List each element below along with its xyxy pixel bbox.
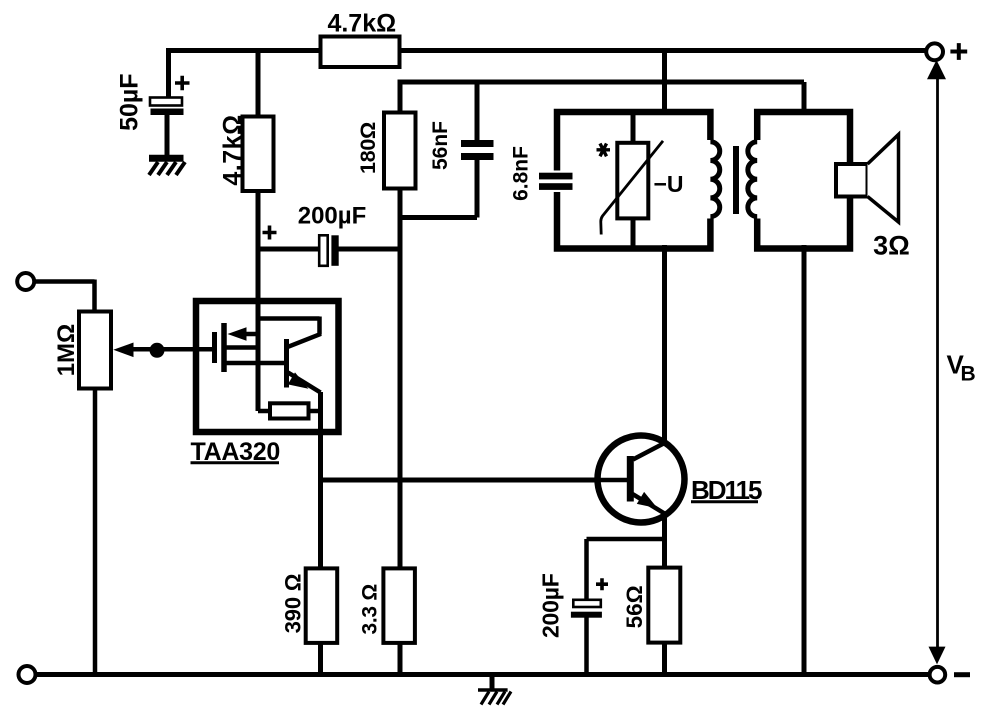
svg-text:1MΩ: 1MΩ xyxy=(53,324,80,377)
svg-text:56nF: 56nF xyxy=(429,121,452,170)
svg-text:180Ω: 180Ω xyxy=(356,122,380,174)
svg-text:390 Ω: 390 Ω xyxy=(281,574,306,633)
svg-text:−U: −U xyxy=(654,171,684,197)
svg-text:200µF: 200µF xyxy=(298,203,367,230)
svg-text:B: B xyxy=(961,363,976,386)
svg-text:4.7kΩ: 4.7kΩ xyxy=(219,114,247,185)
svg-text:3Ω: 3Ω xyxy=(873,231,910,261)
svg-text:6.8nF: 6.8nF xyxy=(510,146,533,201)
svg-text:56Ω: 56Ω xyxy=(622,585,647,628)
svg-text:50µF: 50µF xyxy=(116,73,144,130)
svg-text:200µF: 200µF xyxy=(538,573,564,638)
svg-text:3.3 Ω: 3.3 Ω xyxy=(359,584,382,634)
svg-text:4.7kΩ: 4.7kΩ xyxy=(327,10,396,38)
